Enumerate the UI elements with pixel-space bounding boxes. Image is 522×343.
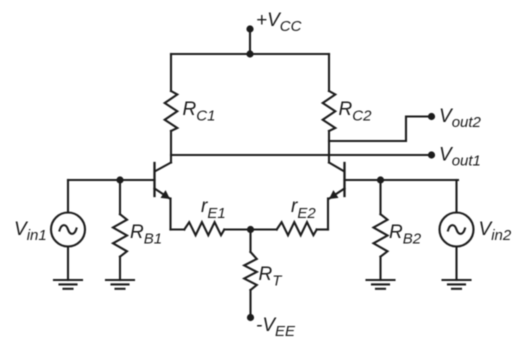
wire top bus [171,53,329,55]
wire RB1 bottom [119,257,121,280]
wire Vin1 top [67,180,69,213]
transistor Q1 [155,163,172,200]
node base RB1 junction [116,176,123,183]
svg-text:rE1: rE1 [201,196,226,222]
label rE2 [291,196,316,222]
node center emitter junction [247,226,254,233]
label RT [259,264,284,290]
transistor Q2 [329,163,345,200]
ground RB1 [106,280,134,289]
node Vout1 dot [428,151,435,158]
label RB2 [389,222,422,248]
label Vin1 [14,219,47,244]
node Vout2 dot [428,113,435,120]
wire Vout2 tap [329,117,428,142]
resistor RT [244,252,257,290]
resistor RC1 [165,91,178,131]
resistor rE2 [277,222,317,235]
label RC1 [183,99,216,125]
wire RC2 bottom to Q2 collector [328,131,330,163]
wire Q2 base lead [345,179,459,181]
wire left branch down to RC1 [170,54,172,91]
label RC2 [339,99,373,125]
svg-text:RC1: RC1 [183,99,216,125]
resistor RB2 [374,214,388,257]
node base RB2 junction [377,176,384,183]
label -VEE [256,315,296,340]
node +VCC terminal dot [246,25,253,32]
label rE1 [201,196,226,222]
wire Vout1 collector bus [171,154,428,156]
wire RC1 bottom to Q1 collector [170,131,172,163]
wire Q1 emitter down [169,199,171,230]
wire Vin2 bottom [455,247,457,281]
label Vin2 [479,219,512,244]
wire emitter to rE1 [171,228,185,230]
wire Q2 emitter down [327,199,329,230]
node junction on top bus [246,50,253,57]
wire rE2 to Q2 emitter [317,228,328,230]
source Vin1 [51,213,85,247]
resistor rE1 [184,222,224,235]
svg-text:RB1: RB1 [130,222,162,248]
wire R_T bottom to -VEE [249,290,251,318]
svg-text:rE2: rE2 [291,196,316,222]
node -VEE terminal dot [247,314,254,321]
wire Q1 base lead [68,179,155,181]
svg-text:Vout1: Vout1 [439,145,481,170]
ground RB2 [367,280,395,289]
ground Vin2 [443,280,471,289]
wire Vin2 top [455,180,457,213]
wire RB2 bottom [379,257,381,280]
wire RB2 top [379,180,381,214]
svg-text:Vin1: Vin1 [14,219,47,244]
svg-text:RB2: RB2 [389,222,422,248]
svg-text:Vout2: Vout2 [439,106,482,131]
wire right branch down to RC2 [328,54,330,91]
label Vout1 [439,145,481,170]
svg-text:RC2: RC2 [339,99,373,125]
svg-text:-VEE: -VEE [256,315,296,340]
wire RB1 top [119,180,121,214]
svg-text:+VCC: +VCC [256,10,302,35]
wire R_T top [249,230,251,253]
label +VCC [256,10,302,35]
wire VCC stub [249,29,251,54]
ground Vin1 [54,280,82,289]
svg-text:Vin2: Vin2 [479,219,512,244]
svg-text:RT: RT [259,264,284,290]
resistor RC2 [323,91,336,131]
resistor RB1 [113,214,127,257]
label Vout2 [439,106,482,131]
source Vin2 [440,213,474,247]
wire rE1 to center node [224,228,250,230]
label RB1 [130,222,162,248]
wire center node to rE2 [251,228,277,230]
wire Vin1 bottom [67,247,69,281]
